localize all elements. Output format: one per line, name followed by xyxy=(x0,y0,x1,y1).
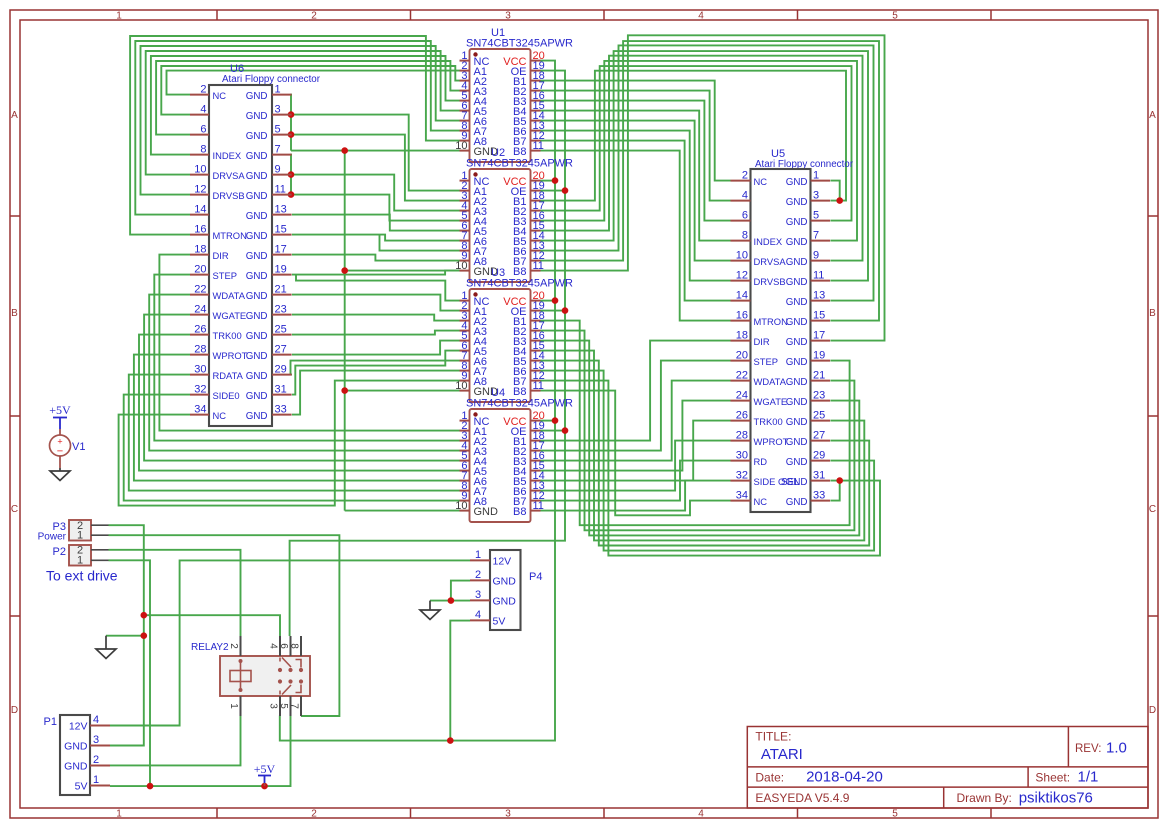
svg-text:9: 9 xyxy=(813,250,819,262)
svg-text:24: 24 xyxy=(736,390,748,402)
U2 pin 5 xyxy=(460,220,470,222)
svg-text:8: 8 xyxy=(289,643,300,649)
RELAY2 pin 3 xyxy=(279,696,281,716)
junction VCC U4 xyxy=(552,417,559,424)
U4 pin 15 xyxy=(531,470,541,472)
U3 pin 11 xyxy=(531,390,541,392)
svg-text:2: 2 xyxy=(228,643,239,649)
U5 pin 27 xyxy=(811,440,831,442)
svg-text:1: 1 xyxy=(228,703,239,709)
U5 pin 13 xyxy=(811,300,831,302)
svg-text:20: 20 xyxy=(736,350,748,362)
U3 pin 18 xyxy=(531,320,541,322)
wire gnd to U3 pin10 xyxy=(345,390,460,392)
svg-text:4: 4 xyxy=(742,190,748,202)
svg-text:5V: 5V xyxy=(75,781,88,793)
wire VCC net U1 pin20 down to relay pin3 xyxy=(280,61,555,741)
svg-text:23: 23 xyxy=(813,390,825,402)
wire U1 B2 to U5 pin4 xyxy=(541,91,731,201)
RELAY2 contacts bottom xyxy=(279,691,281,695)
svg-text:8: 8 xyxy=(742,230,748,242)
junction OE U4 xyxy=(562,427,569,434)
svg-text:31: 31 xyxy=(813,470,825,482)
wire U6 pin21 to U3 A1 xyxy=(292,295,460,311)
wire gnd rail to ground xyxy=(106,635,144,637)
U6 pin 29 xyxy=(272,374,292,376)
U5 pin 9 xyxy=(811,260,831,262)
svg-text:GND: GND xyxy=(786,437,808,448)
svg-text:SN74CBT3245APWR: SN74CBT3245APWR xyxy=(466,38,573,50)
P2 pin 2 xyxy=(91,549,109,551)
U1 pin 16 xyxy=(531,100,541,102)
U2 pin 7 xyxy=(460,240,470,242)
junction gnd bus U2 xyxy=(341,267,348,274)
U4 pin 5 xyxy=(460,460,470,462)
junction U5 pin3 xyxy=(836,197,843,204)
svg-text:19: 19 xyxy=(813,350,825,362)
wire VCC to U3 pin20 xyxy=(541,300,556,302)
RELAY2 pin 2 xyxy=(240,636,242,656)
wire U4 B6 to U5 pin28 xyxy=(541,441,731,491)
P1 pin 2 xyxy=(90,765,110,767)
wire U6 pin24 to U4 A4 xyxy=(144,315,459,461)
U6 pin 18 xyxy=(190,254,209,256)
U6 pin 12 xyxy=(190,194,209,196)
svg-text:5: 5 xyxy=(275,124,281,136)
U4 pin 1 xyxy=(460,420,470,422)
U1 pin 15 xyxy=(531,110,541,112)
U4 pin 19 xyxy=(531,430,541,432)
wire gnd rail to relay pin4 xyxy=(144,615,280,636)
U1 pin 9 xyxy=(460,140,470,142)
svg-text:SN74CBT3245APWR: SN74CBT3245APWR xyxy=(466,158,573,170)
svg-text:12: 12 xyxy=(736,270,748,282)
svg-text:11: 11 xyxy=(275,184,286,196)
svg-text:GND: GND xyxy=(64,741,88,753)
svg-text:4: 4 xyxy=(93,714,99,726)
svg-text:15: 15 xyxy=(275,224,287,236)
junction U6 pin5 xyxy=(288,131,295,138)
wire U6 pin3 to U2 A1 xyxy=(291,115,460,191)
svg-text:20: 20 xyxy=(194,264,206,276)
wire P1 pin4 12V to P4 pin1 xyxy=(110,560,470,725)
svg-text:10: 10 xyxy=(455,260,467,272)
wire U5 pin33 to pin31 xyxy=(831,481,840,501)
svg-text:STEP: STEP xyxy=(213,270,238,281)
svg-text:GND: GND xyxy=(246,231,268,242)
U3 pin 19 xyxy=(531,310,541,312)
U6 pin 9 xyxy=(272,174,292,176)
U6 pin 19 xyxy=(272,274,292,276)
RELAY2 pin 4 xyxy=(279,636,281,656)
U6 pin 25 xyxy=(272,334,292,336)
wire U2 B4 to U5 pin9 xyxy=(541,56,863,261)
svg-text:30: 30 xyxy=(194,364,206,376)
svg-text:GND: GND xyxy=(493,576,517,588)
P4 body xyxy=(490,550,521,630)
U2 pin 19 xyxy=(531,190,541,192)
svg-text:3: 3 xyxy=(813,190,819,202)
U6 pin 8 xyxy=(190,154,209,156)
svg-text:D: D xyxy=(11,705,18,716)
wire U6 pin17 to U2 A8 xyxy=(292,255,460,261)
U6 pin 5 xyxy=(272,134,292,136)
U3 pin 3 xyxy=(460,320,470,322)
U1 pin 7 xyxy=(460,120,470,122)
svg-text:GND: GND xyxy=(246,131,268,142)
svg-text:33: 33 xyxy=(813,490,825,502)
wire P2 pin2 to relay pin2 xyxy=(109,550,241,636)
svg-text:10: 10 xyxy=(455,140,467,152)
wire U1 B1 to U5 pin2 xyxy=(541,81,731,181)
svg-text:GND: GND xyxy=(786,457,808,468)
svg-text:DIR: DIR xyxy=(754,336,770,347)
svg-text:MTRON: MTRON xyxy=(213,230,247,241)
svg-text:GND: GND xyxy=(246,171,268,182)
wire U6 pin6 to U1 A3 xyxy=(156,61,459,135)
U5 pin 7 xyxy=(811,240,831,242)
svg-text:P4: P4 xyxy=(529,571,542,583)
U3 pin 4 xyxy=(460,330,470,332)
title block xyxy=(747,727,1148,809)
wire U3 B5 to U5 pin27 xyxy=(541,361,870,546)
U6 pin 32 xyxy=(190,394,209,396)
junction gnd bus top xyxy=(341,147,348,154)
svg-text:+5V: +5V xyxy=(254,762,276,776)
U3 pin 10 xyxy=(460,390,470,392)
wire U2 B2 to U5 pin5 xyxy=(541,66,852,221)
svg-text:EASYEDA V5.4.9: EASYEDA V5.4.9 xyxy=(755,791,849,805)
U2 pin 11 xyxy=(531,270,541,272)
wire U6 pin29 to U3 A6 xyxy=(291,361,460,375)
svg-text:GND: GND xyxy=(786,317,808,328)
U4 pin 11 xyxy=(531,510,541,512)
wire gnd to U4 pin10 xyxy=(345,510,460,512)
U1 pin 8 xyxy=(460,130,470,132)
svg-text:16: 16 xyxy=(194,224,206,236)
U3 pin 7 xyxy=(460,360,470,362)
svg-text:6: 6 xyxy=(742,210,748,222)
wire U6 pin32 to U4 A8 xyxy=(124,395,460,501)
wire U6 pin22 to U4 A3 xyxy=(149,295,459,451)
svg-text:GND: GND xyxy=(474,506,499,518)
U1 pin 20 xyxy=(531,60,541,62)
wire U6 pin5 to U2 A2 xyxy=(291,135,460,201)
wire branch to U2 A7 xyxy=(380,235,460,251)
wire U6 pin14 to U1 A7 xyxy=(135,41,459,215)
ground at V1 xyxy=(59,468,61,471)
svg-text:2: 2 xyxy=(311,11,317,22)
U1 pin 14 xyxy=(531,120,541,122)
U6 pin 23 xyxy=(272,314,292,316)
P1 pin 4 xyxy=(90,725,110,727)
U5 pin 20 xyxy=(731,360,751,362)
svg-text:12: 12 xyxy=(194,184,206,196)
wire U3 B1 to U5 pin19 xyxy=(541,321,850,526)
svg-text:28: 28 xyxy=(736,430,748,442)
wire VCC to U4 pin20 xyxy=(541,420,556,422)
svg-text:WDATA: WDATA xyxy=(213,290,246,301)
svg-text:GND: GND xyxy=(246,411,268,422)
svg-text:3: 3 xyxy=(475,589,481,601)
svg-text:16: 16 xyxy=(736,310,748,322)
junction U6 pin11 xyxy=(288,191,295,198)
svg-text:3: 3 xyxy=(505,809,511,820)
P4 pin 1 xyxy=(470,559,490,561)
svg-text:DRVSA: DRVSA xyxy=(754,256,787,267)
U6 pin 4 xyxy=(190,114,209,116)
svg-text:4: 4 xyxy=(268,643,279,649)
wire U6 pin28 to U4 A6 xyxy=(134,355,460,481)
svg-text:22: 22 xyxy=(194,284,206,296)
wire U6 pin18 to U4 A1 xyxy=(159,255,459,431)
svg-text:C: C xyxy=(11,504,18,515)
svg-text:A: A xyxy=(11,110,18,121)
RELAY2 contacts top xyxy=(279,658,281,662)
svg-text:21: 21 xyxy=(275,284,287,296)
svg-text:WDATA: WDATA xyxy=(754,376,787,387)
wire U2 B1 to U5 pin3 xyxy=(541,71,847,201)
U5 pin 23 xyxy=(811,400,831,402)
svg-text:12V: 12V xyxy=(493,556,512,568)
wire U2 B3 to U5 pin7 xyxy=(541,61,858,241)
svg-text:ATARI: ATARI xyxy=(761,746,803,763)
U4 body xyxy=(470,409,531,522)
svg-text:NC: NC xyxy=(213,410,227,421)
svg-text:1: 1 xyxy=(475,549,481,561)
RELAY2 pin 5 xyxy=(290,696,292,716)
svg-text:2: 2 xyxy=(475,569,481,581)
U4 pin 9 xyxy=(460,500,470,502)
U2 pin 9 xyxy=(460,260,470,262)
svg-text:25: 25 xyxy=(813,410,825,422)
U5 pin 14 xyxy=(731,300,751,302)
U5 pin 16 xyxy=(731,320,751,322)
ground at P4 xyxy=(429,601,431,610)
U2 pin 14 xyxy=(531,240,541,242)
svg-text:SEL: SEL xyxy=(781,477,800,488)
svg-text:22: 22 xyxy=(736,370,748,382)
svg-text:34: 34 xyxy=(736,490,748,502)
U5 pin 12 xyxy=(731,280,751,282)
U6 pin 7 xyxy=(272,154,292,156)
svg-text:23: 23 xyxy=(275,304,287,316)
svg-text:8: 8 xyxy=(200,144,206,156)
wire U5 pin1 to pin3 xyxy=(831,181,840,201)
svg-text:TITLE:: TITLE: xyxy=(755,730,791,744)
svg-text:Date:: Date: xyxy=(755,770,784,784)
junction gnd rail a xyxy=(141,612,148,619)
svg-text:GND: GND xyxy=(246,251,268,262)
U3 pin 8 xyxy=(460,370,470,372)
RELAY2 pin 1 xyxy=(240,696,242,716)
svg-text:4: 4 xyxy=(698,809,704,820)
svg-text:5V: 5V xyxy=(493,616,506,628)
U1 pin 6 xyxy=(460,110,470,112)
svg-text:Atari Floppy connector: Atari Floppy connector xyxy=(222,74,321,85)
U4 pin 16 xyxy=(531,460,541,462)
svg-text:GND: GND xyxy=(246,311,268,322)
svg-text:GND: GND xyxy=(786,377,808,388)
junction OE U3 xyxy=(562,307,569,314)
U5 pin 33 xyxy=(811,500,831,502)
svg-text:GND: GND xyxy=(786,417,808,428)
voltage source V1 xyxy=(59,429,61,435)
junction 5V rail flag xyxy=(261,783,268,790)
svg-text:REV:: REV: xyxy=(1075,743,1101,755)
svg-text:B8: B8 xyxy=(513,386,526,398)
svg-text:14: 14 xyxy=(736,290,748,302)
U1 pin 11 xyxy=(531,150,541,152)
P3 pin 2 xyxy=(91,524,109,526)
U5 pin 29 xyxy=(811,460,831,462)
wire U4 B4 to U5 pin24 xyxy=(541,401,731,471)
svg-text:DRVSB: DRVSB xyxy=(754,276,786,287)
wire U3 B7 to U5 pin31 xyxy=(541,381,881,556)
svg-text:INDEX: INDEX xyxy=(213,150,242,161)
junction U5 pin31 xyxy=(836,477,843,484)
svg-text:30: 30 xyxy=(736,450,748,462)
U2 pin 15 xyxy=(531,230,541,232)
svg-text:10: 10 xyxy=(194,164,206,176)
svg-text:31: 31 xyxy=(275,384,287,396)
U1 pin 4 xyxy=(460,90,470,92)
U5 pin 2 xyxy=(731,180,751,182)
U1 pin 17 xyxy=(531,90,541,92)
U1 pin 19 xyxy=(531,70,541,72)
RELAY2 pin 6 xyxy=(290,636,292,656)
svg-text:18: 18 xyxy=(736,330,748,342)
svg-text:21: 21 xyxy=(813,370,825,382)
svg-text:GND: GND xyxy=(786,357,808,368)
wire U1 B5 to U5 pin10 xyxy=(541,121,731,261)
U6 pin 10 xyxy=(190,174,209,176)
RELAY2 coil xyxy=(230,671,251,682)
wire P4 pin2 gnd xyxy=(451,581,470,601)
svg-text:GND: GND xyxy=(246,371,268,382)
svg-text:NC: NC xyxy=(213,90,227,101)
svg-text:5: 5 xyxy=(892,11,898,22)
svg-text:24: 24 xyxy=(194,304,206,316)
U3 pin 12 xyxy=(531,380,541,382)
svg-text:6: 6 xyxy=(200,124,206,136)
U4 pin 14 xyxy=(531,480,541,482)
U5 pin 15 xyxy=(811,320,831,322)
wire U6 gnd chain pins 7-9-11 xyxy=(291,155,292,195)
svg-text:GND: GND xyxy=(786,237,808,248)
wire U6 pin19 to U2 pin10 gnd xyxy=(292,271,460,275)
svg-text:11: 11 xyxy=(533,500,544,512)
U3 pin 9 xyxy=(460,380,470,382)
svg-text:NC: NC xyxy=(754,176,768,187)
svg-text:WGATE: WGATE xyxy=(213,310,247,321)
svg-text:10: 10 xyxy=(736,250,748,262)
U6 body xyxy=(209,85,272,426)
P2 pin 1 xyxy=(91,559,109,561)
svg-text:2: 2 xyxy=(311,809,317,820)
svg-text:GND: GND xyxy=(246,331,268,342)
svg-text:26: 26 xyxy=(194,324,206,336)
svg-text:1: 1 xyxy=(275,84,281,96)
svg-text:GND: GND xyxy=(786,337,808,348)
svg-text:STEP: STEP xyxy=(754,356,779,367)
U4 pin 20 xyxy=(531,420,541,422)
svg-text:P2: P2 xyxy=(53,546,66,558)
svg-text:18: 18 xyxy=(194,244,206,256)
U4 pin 13 xyxy=(531,490,541,492)
svg-text:B8: B8 xyxy=(513,506,526,518)
U4 pin 6 xyxy=(460,470,470,472)
wire U6 pin15 to U2 A6 xyxy=(292,235,460,241)
svg-text:5: 5 xyxy=(813,210,819,222)
U6 pin 14 xyxy=(190,214,209,216)
wire U6 pin26 to U4 A5 xyxy=(139,335,460,471)
svg-text:RELAY2: RELAY2 xyxy=(191,642,229,653)
junction U6 pin3 xyxy=(288,111,295,118)
svg-text:GND: GND xyxy=(246,351,268,362)
wire U4 B5 to U5 pin26 xyxy=(541,421,731,481)
wire P3 pin1 to relay pin7 xyxy=(109,535,340,716)
U4 pin 4 xyxy=(460,450,470,452)
wire U3 B3 to U5 pin23 xyxy=(541,341,860,536)
U5 pin 31 xyxy=(811,480,831,482)
wire U6 pin9 to U2 A3 xyxy=(291,175,460,211)
U6 pin 21 xyxy=(272,294,292,296)
svg-text:Power: Power xyxy=(38,532,67,543)
U6 pin 20 xyxy=(190,274,209,276)
junction 5V rail a xyxy=(147,783,154,790)
wire U6 pin23 to U3 A2 xyxy=(292,315,460,321)
svg-text:11: 11 xyxy=(533,260,544,272)
wire U2 B7 to U5 pin15 xyxy=(541,41,880,321)
wire U6 pin27 to U3 A4 xyxy=(292,341,460,355)
svg-text:4: 4 xyxy=(475,609,481,621)
wire P3 pin2 to P1 pin3 gnd xyxy=(109,525,144,745)
svg-text:DIR: DIR xyxy=(213,250,229,261)
svg-text:B: B xyxy=(1149,308,1156,319)
ground at gnd rail (left) xyxy=(105,636,107,649)
svg-text:SIDE0: SIDE0 xyxy=(213,390,240,401)
U1 pin 13 xyxy=(531,130,541,132)
wire U1 B6 to U5 pin12 xyxy=(541,131,731,281)
svg-text:RDATA: RDATA xyxy=(213,370,244,381)
svg-text:A: A xyxy=(1149,110,1156,121)
U6 pin 22 xyxy=(190,294,209,296)
wire U6 pin16 to U1 A8 xyxy=(130,36,459,235)
U6 pin 13 xyxy=(272,214,292,216)
wire OE to U2 pin19 xyxy=(541,190,566,192)
svg-text:GND: GND xyxy=(786,217,808,228)
svg-text:4: 4 xyxy=(698,11,704,22)
wire U4 B1 to U5 pin18 xyxy=(541,341,731,441)
svg-text:To ext drive: To ext drive xyxy=(46,568,118,584)
svg-text:29: 29 xyxy=(813,450,825,462)
U4 pin 8 xyxy=(460,490,470,492)
U3 pin 14 xyxy=(531,360,541,362)
U6 pin 31 xyxy=(272,394,292,396)
wire U6 pin2 to U1 A1 xyxy=(167,71,460,95)
U3 pin 20 xyxy=(531,300,541,302)
wire gnd to U1 pin10 xyxy=(291,150,460,152)
wire U6 pin30 to U4 A7 xyxy=(129,375,460,491)
svg-text:7: 7 xyxy=(289,703,300,709)
U5 pin 1 xyxy=(811,180,831,182)
svg-text:MTRON: MTRON xyxy=(754,316,788,327)
U2 pin 4 xyxy=(460,210,470,212)
wire OE net U1 pin19 down to relay pin6 xyxy=(290,71,565,636)
wire P4 pin4 5V down to VCC rail xyxy=(450,621,470,741)
wire OE to U4 pin19 xyxy=(541,430,566,432)
